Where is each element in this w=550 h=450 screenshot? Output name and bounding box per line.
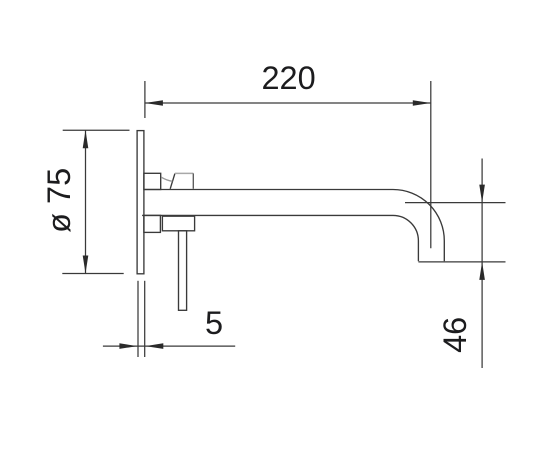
svg-text:5: 5 [205,305,223,341]
svg-text:46: 46 [437,317,473,353]
svg-text:220: 220 [261,60,315,96]
svg-text:ø 75: ø 75 [41,168,77,233]
